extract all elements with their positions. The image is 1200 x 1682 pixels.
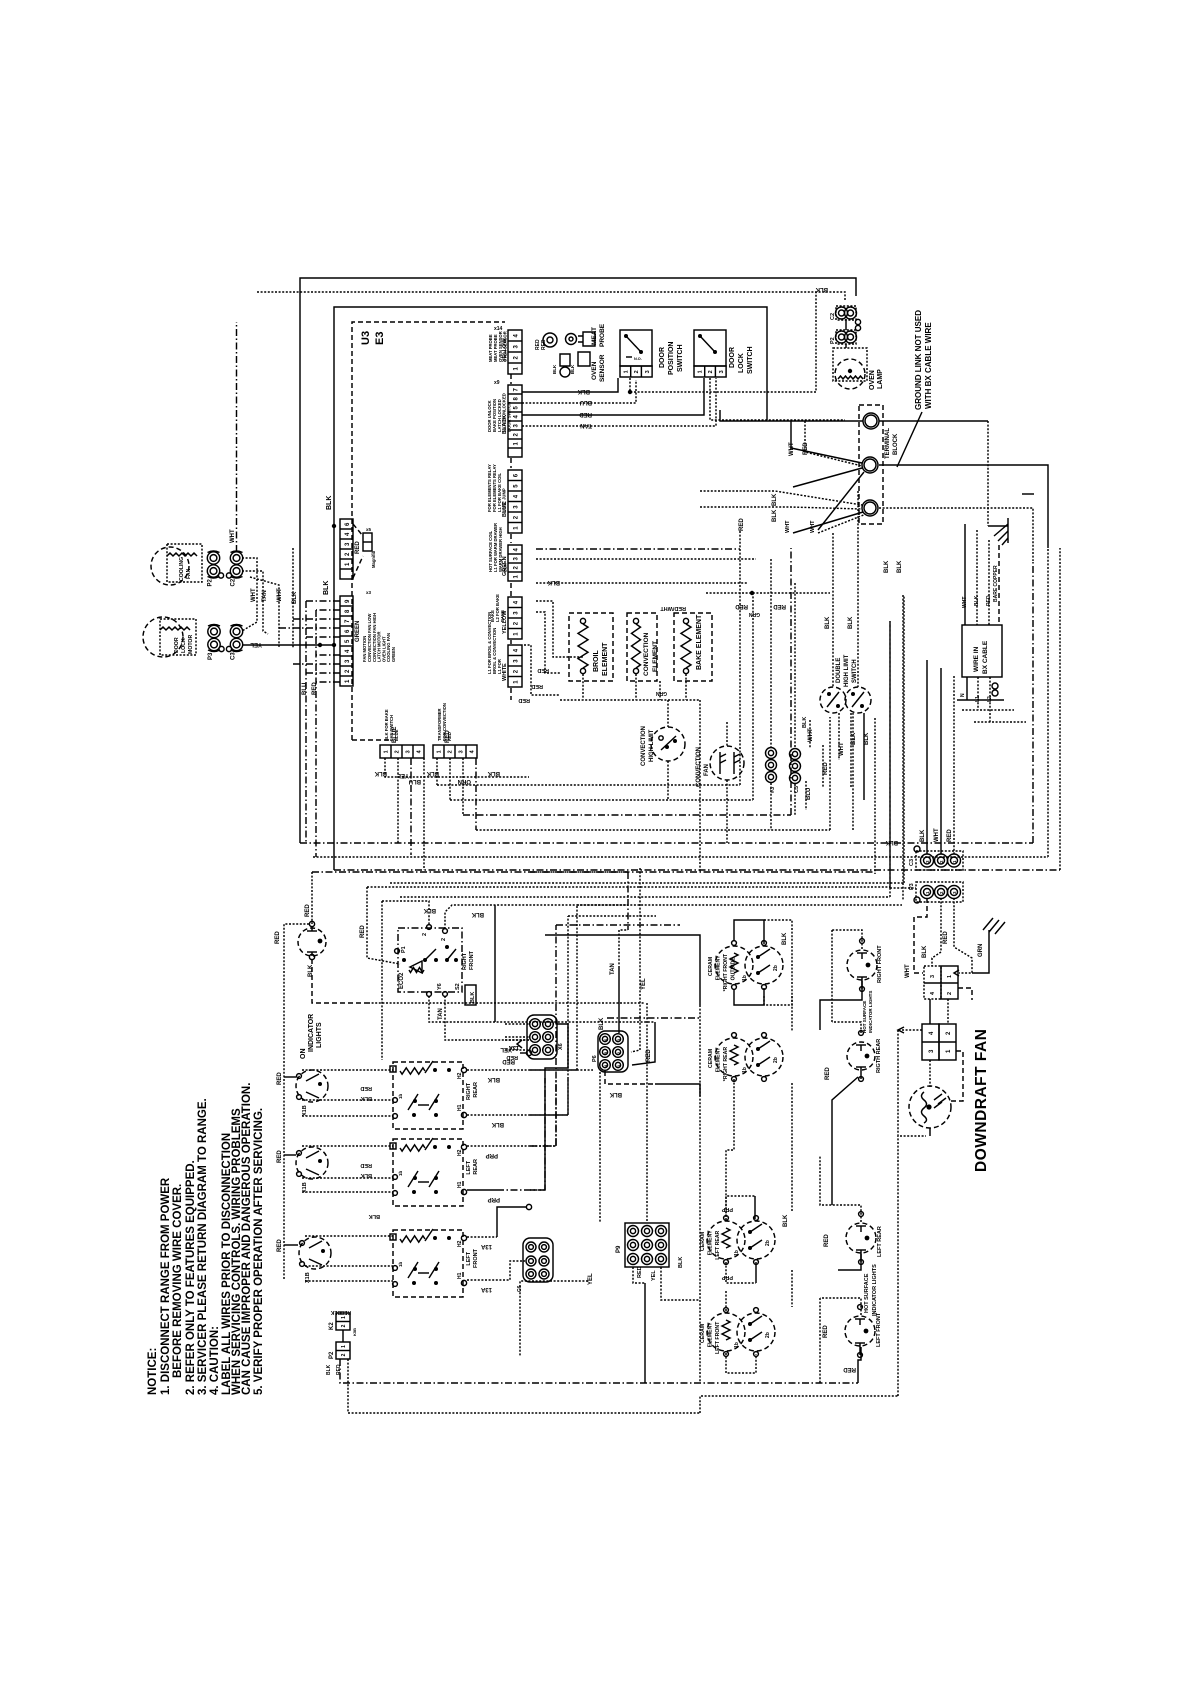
terminal block outline [859,405,883,524]
svg-text:1b: 1b [742,1067,748,1073]
svg-text:P2: P2 [830,337,836,344]
wire lower section top [312,871,875,873]
svg-text:RED: RED [360,925,366,938]
svg-text:RED: RED [943,931,949,944]
svg-text:POSITION: POSITION [668,342,675,375]
wire stub RED strip [436,758,438,785]
element bake [674,613,712,681]
wire N right loop [879,508,1033,561]
terminal block lug 2 [862,457,878,473]
wire RED downdraft [954,898,972,973]
svg-text:1: 1 [697,370,703,373]
switch ECO2 box [398,928,462,992]
svg-text:P3: P3 [909,883,915,890]
wire ORN strip stub [462,758,464,815]
wire K2 PC [342,1330,344,1342]
connector C3 downdraft [916,851,963,870]
board edge dashes [510,374,512,700]
svg-text:RED: RED [277,1072,283,1085]
lamp oven [833,348,867,381]
svg-text:TAN: TAN [262,590,268,602]
svg-text:BEFORE REMOVING WIRE COVER.: BEFORE REMOVING WIRE COVER. [172,1184,184,1378]
svg-text:TAN: TAN [580,422,592,428]
motor door lock [143,617,183,657]
svg-text:WHT: WHT [934,828,940,842]
svg-text:YEL: YEL [397,772,409,778]
svg-text:ELEMENT: ELEMENT [652,641,659,672]
connector P6 [598,1031,628,1072]
svg-text:RED: RED [735,603,748,609]
svg-text:BLK: BLK [292,591,298,604]
svg-text:CERAM: CERAM [708,1049,714,1068]
svg-text:P9: P9 [616,1245,622,1253]
connector P9 [625,1223,669,1267]
svg-text:P3: P3 [208,652,214,660]
svg-text:CAN CAUSE IMPROPER AND DANGERO: CAN CAUSE IMPROPER AND DANGEROUS OPERATI… [241,1083,253,1395]
svg-text:BLK: BLK [323,581,330,595]
connector C3 fan [790,749,801,760]
svg-text:GREEN: GREEN [355,621,361,642]
wire box to fan connector [929,999,931,1024]
element ceramic left rear [707,1221,745,1259]
svg-text:RED/WHT: RED/WHT [660,605,686,611]
svg-text:GRN: GRN [978,944,984,957]
svg-text:BLK: BLK [577,388,590,394]
svg-text:C2: C2 [231,578,237,586]
svg-text:RED: RED [275,931,281,944]
connector strip RED left [340,519,353,579]
connector P2 cooling fan [207,552,219,564]
svg-text:RED: RED [277,1239,283,1252]
svg-text:x5: x5 [366,527,372,532]
svg-text:LOCK: LOCK [181,638,187,653]
svg-text:4. CAUTION:: 4. CAUTION: [209,1326,221,1395]
wire DHL feeds [832,533,834,687]
svg-text:WHITE: WHITE [502,663,508,681]
svg-text:GROUND LINK NOT USED: GROUND LINK NOT USED [914,310,923,410]
svg-text:SWITCH: SWITCH [852,659,858,683]
wire right front element loop [530,872,628,930]
svg-text:OVEN: OVEN [869,370,876,390]
box wire in BX cable [962,625,1002,677]
svg-text:U3: U3 [360,331,372,345]
oven sensor symbol [560,354,570,366]
svg-text:L1 FOR: L1 FOR [497,659,502,674]
connector P2 lower [336,1342,350,1359]
wire dashdot right of P6 [607,1017,700,1019]
wire WHT diag to lug3 [793,512,863,533]
wires GREEN left strip web [306,600,340,602]
svg-text:INDICATOR: INDICATOR [308,1014,315,1052]
wire BLK service [976,530,978,625]
svg-text:3: 3 [406,750,412,753]
wire WHT to lug2 [791,421,862,463]
wire P9 feed [646,1003,648,1223]
svg-text:3: 3 [930,975,936,978]
svg-text:K5B: K5B [352,1328,357,1336]
svg-text:YEL: YEL [250,641,262,647]
svg-text:1b: 1b [398,1170,403,1176]
svg-text:13A: 13A [480,1243,492,1249]
svg-text:2: 2 [341,1324,347,1327]
wire BLU door position [522,380,636,403]
svg-text:2b: 2b [773,965,779,971]
connector C6 [523,1238,553,1282]
wire WHT from C2 to door lock [242,558,257,631]
wire BLK strip stub 1 [385,758,529,777]
svg-text:BLUE: BLUE [394,729,399,741]
wire band y800 [450,593,753,800]
svg-text:BLK: BLK [552,364,557,374]
connector strip GREEN mid [508,545,522,581]
switch door lock [694,330,726,366]
svg-text:1: 1 [341,1316,347,1319]
connector C3 door lock [230,625,242,637]
element broil [569,613,613,681]
svg-text:BLK: BLK [308,964,314,977]
svg-text:BROIL: BROIL [593,650,600,673]
connector strip BLUE bottom [380,745,424,758]
wire GRN ground [972,930,989,973]
svg-text:1: 1 [623,370,629,373]
svg-text:BLK: BLK [374,770,387,776]
connector X6 [527,1015,557,1059]
svg-text:E3: E3 [374,332,386,345]
wire high limit top [667,700,669,727]
svg-text:CERAM: CERAM [700,1232,706,1251]
wire L1 main top [720,410,863,421]
svg-text:RED: RED [518,697,530,703]
svg-text:GRN: GRN [656,690,668,696]
svg-text:BLK: BLK [599,1017,605,1030]
svg-text:RED: RED [986,595,992,606]
svg-text:BLK: BLK [772,493,778,506]
svg-text:LEFT: LEFT [466,1160,472,1174]
wire L2 right loop [879,465,1048,548]
svg-text:COOLING: COOLING [179,557,185,581]
wire RED door switches [522,378,704,415]
svg-text:YEL: YEL [641,978,647,990]
wire element RF top [734,920,764,944]
svg-text:H1: H1 [457,1181,463,1188]
svg-text:RED: RED [340,1309,351,1315]
svg-text:RIGHT: RIGHT [466,1082,472,1100]
svg-text:WHT: WHT [789,442,795,456]
svg-text:BLK: BLK [678,1257,684,1268]
wire RED/WHT bus top [536,548,740,550]
wire WHT downdraft [914,898,927,973]
wire Y from P9 region [530,1069,593,1071]
svg-text:FAN: FAN [186,568,192,579]
wire BLK fourth vertical [292,548,294,648]
switch box right rear [393,1062,463,1129]
svg-text:BLU: BLU [409,778,421,784]
svg-text:BLK: BLK [815,286,828,292]
connector strip YELLOW lower [508,597,522,639]
svg-text:BLK: BLK [423,907,436,913]
svg-text:H2: H2 [457,1149,463,1156]
connector strip WHITE [508,645,522,687]
junction dots left bus [332,524,336,528]
svg-text:OUTSIDE: OUTSIDE [731,957,737,981]
svg-text:BLK: BLK [547,579,560,585]
svg-text:ON: ON [300,1049,307,1060]
switch box left front [393,1230,463,1297]
svg-text:PRP: PRP [721,1206,733,1212]
wire RED element feeds [536,601,583,657]
wire left front element [725,1290,727,1311]
connector strip BLACK [508,385,522,457]
svg-text:RIGHT FRONT: RIGHT FRONT [877,945,883,983]
svg-text:LEFT FRONT: LEFT FRONT [876,1312,882,1347]
svg-text:RIGTH REAR: RIGTH REAR [876,1039,882,1073]
svg-text:BLK: BLK [848,616,854,629]
switch convection high limit [651,727,685,761]
wire BLK under P6 [605,1071,655,1084]
wire RED junction bus [706,592,830,594]
svg-text:BLK: BLK [570,364,575,374]
svg-text:ELEMENT: ELEMENT [602,642,609,676]
wire element column x700 [699,1005,701,1300]
svg-text:PROBE: PROBE [599,323,606,347]
svg-text:1b: 1b [398,1093,403,1099]
wire element right column [764,996,792,1031]
svg-text:2b: 2b [773,1057,779,1063]
svg-text:RED: RED [773,603,786,609]
svg-text:1: 1 [384,750,390,753]
svg-text:GREEN: GREEN [391,647,396,662]
motor cooling fan [151,547,189,585]
wire RED eco2 feed [367,886,890,888]
svg-text:DOOR: DOOR [659,347,666,368]
motor downdraft fan [909,1086,951,1128]
svg-text:TERMINAL: TERMINAL [885,428,891,459]
svg-text:L1: L1 [975,696,981,702]
svg-text:MOTOR: MOTOR [188,635,194,654]
svg-text:LAMP: LAMP [877,369,884,389]
svg-text:BLK: BLK [802,717,808,728]
svg-text:RED: RED [579,411,592,417]
wire band y815 [463,548,791,815]
svg-text:ECO2: ECO2 [399,972,405,989]
svg-text:1: 1 [947,975,953,978]
svg-text:BLU: BLU [580,399,592,405]
svg-text:WHT: WHT [905,964,911,978]
wire left rear element [726,1196,755,1220]
svg-text:TAN: TAN [610,963,616,975]
svg-text:CONVECTION: CONVECTION [643,632,650,676]
wire WHT cooling fan vertical [236,322,238,552]
svg-text:CONVECTION: CONVECTION [641,726,647,766]
wire RED service [988,540,990,625]
connector downdraft [922,1024,939,1060]
svg-text:RED: RED [823,1325,829,1338]
svg-text:BLK: BLK [782,932,788,945]
svg-text:x3: x3 [366,590,372,595]
svg-text:5. VERIFY PROPER OPERATION AFT: 5. VERIFY PROPER OPERATION AFTER SERVICI… [253,1108,265,1395]
svg-text:BAKE ELEMENT: BAKE ELEMENT [696,614,703,670]
wire GRN convection [659,681,661,700]
svg-text:13A: 13A [480,1286,492,1292]
wire TAN YEL element feeds [619,930,628,968]
svg-text:2: 2 [395,750,401,753]
wire #3 bottom to band [770,783,772,830]
svg-text:DOUBLE: DOUBLE [836,658,842,683]
svg-text:OVEN SENSOR: OVEN SENSOR [503,331,508,362]
wire risers switch outputs [576,905,578,1070]
svg-text:Y6: Y6 [437,983,443,990]
switch door position [620,330,652,366]
svg-text:WHT: WHT [962,597,968,608]
svg-text:BLK: BLK [772,509,778,522]
svg-text:WHT: WHT [839,742,845,756]
svg-text:ELEMENT: ELEMENT [708,1230,714,1256]
motor convection fan [710,746,744,780]
service leads N L1 L2 [957,677,1004,700]
svg-text:PRP: PRP [721,1274,733,1280]
svg-text:FRONT: FRONT [473,1248,479,1268]
svg-text:ELEMENT: ELEMENT [716,955,722,981]
svg-text:1b: 1b [734,1250,740,1256]
element ceramic right rear [715,1038,753,1076]
relay module small [363,533,372,551]
svg-text:RED: RED [823,762,829,775]
svg-text:P2: P2 [329,1351,335,1359]
wire BLK pair to lug3 [700,491,862,505]
svg-text:MEAT: MEAT [591,327,598,345]
ground symbol [988,518,1008,543]
connector P3 downdraft [916,882,963,902]
svg-text:H2: H2 [457,1072,463,1079]
svg-text:H2: H2 [457,1240,463,1247]
svg-text:RED: RED [843,1366,856,1372]
svg-text:RED: RED [305,904,311,917]
svg-text:SWITCH: SWITCH [747,346,754,374]
wire WHT service [964,524,966,625]
svg-text:RED: RED [277,1150,283,1163]
connector strip GREEN left [340,596,353,686]
svg-text:PRP: PRP [488,1196,500,1202]
svg-text:BLK: BLK [974,595,980,606]
svg-text:BLK: BLK [470,992,476,1003]
wire band ends right [1059,548,1061,870]
wire WHT third vertical [250,577,279,648]
svg-text:WHT: WHT [808,728,814,742]
svg-text:S2: S2 [455,983,461,990]
wire C3 downdraft feeds [926,660,928,854]
svg-text:LEFT REAR: LEFT REAR [715,1230,721,1259]
connector P2 oven lamp [836,331,848,343]
svg-text:CERAM: CERAM [700,1324,706,1343]
svg-text:WITH BX CABLE WIRE: WITH BX CABLE WIRE [924,322,933,409]
svg-text:WIRE IN: WIRE IN [973,646,980,672]
svg-text:REAR: REAR [473,1159,479,1175]
svg-text:RED: RED [355,541,361,554]
svg-text:*RIGHT REAR: *RIGHT REAR [723,1047,729,1082]
svg-text:2: 2 [448,750,454,753]
wire RED left vertical [315,610,317,857]
svg-text:BLK: BLK [920,829,926,842]
connector #3 [766,748,777,759]
control board U3 outline [352,322,505,740]
connector strip YELLOW top [508,330,522,374]
svg-text:BLU: BLU [806,788,812,800]
svg-text:BLK: BLK [326,496,333,510]
wire band y785 [437,531,740,785]
svg-text:BLK: BLK [885,839,898,845]
wire BLK bus 2 [536,582,748,584]
svg-text:2: 2 [341,1353,347,1356]
svg-text:2b: 2b [765,1332,771,1338]
svg-text:BLK: BLK [609,1091,622,1097]
element ceramic right front [715,946,753,984]
wire BLK eco2 top [382,901,429,925]
wire right verticals to lower half [874,718,876,874]
wire convection fan bottom [726,780,728,843]
svg-text:3. SERVICER PLEASE RETURN DIAG: 3. SERVICER PLEASE RETURN DIAGRAM TO RAN… [197,1098,209,1395]
svg-text:RED: RED [803,442,809,455]
svg-text:PRP: PRP [486,1152,498,1158]
svg-text:2: 2 [708,370,714,373]
svg-text:3: 3 [645,370,651,373]
svg-text:BLK: BLK [884,560,890,573]
wire element left column [726,1079,734,1218]
svg-text:BARE COPPER: BARE COPPER [993,565,999,602]
svg-text:K2: K2 [329,1322,335,1330]
svg-text:HIGH LIMIT: HIGH LIMIT [649,729,655,762]
wire TAN door lock [522,378,716,426]
svg-text:1b: 1b [734,1342,740,1348]
svg-text:2: 2 [634,370,640,373]
svg-text:LEFT: LEFT [466,1251,472,1265]
wire TAN vertical [242,571,268,634]
svg-text:LEFT FRONT: LEFT FRONT [715,1321,721,1354]
connector strip BLUE [508,470,522,533]
svg-text:RED: RED [447,732,452,741]
svg-text:H1: H1 [457,1104,463,1111]
svg-text:INDICATOR LIGHTS: INDICATOR LIGHTS [868,991,873,1033]
svg-text:LOCK: LOCK [738,353,745,373]
svg-text:REAR: REAR [473,1082,479,1098]
svg-text:RED: RED [739,518,745,531]
svg-text:3: 3 [719,370,725,373]
svg-text:INDICATOR LIGHTS: INDICATOR LIGHTS [872,1264,878,1316]
svg-text:RED: RED [824,1234,830,1247]
svg-text:C3: C3 [231,652,237,660]
svg-text:RED: RED [947,829,953,842]
svg-text:TAN: TAN [438,1008,444,1020]
svg-text:ELEMENT: ELEMENT [716,1047,722,1073]
wire downdraft fan loop [898,1029,922,1031]
svg-text:RED: RED [360,1085,372,1091]
svg-text:BLK: BLK [330,1309,341,1315]
svg-text:N: N [960,693,966,697]
wire RED to lug2 [805,421,862,466]
svg-text:WHT: WHT [230,529,236,543]
svg-text:RED: RED [312,682,318,695]
light right front [847,950,877,980]
svg-text:WHT: WHT [277,588,283,602]
wire P6 pin2 [631,868,640,1052]
svg-text:BAKE: BAKE [500,610,505,622]
svg-text:L2: L2 [987,696,993,702]
svg-text:BLK: BLK [864,732,870,745]
wire YEL door lock to board [242,644,334,646]
wire TAN eco2 [429,996,655,1022]
svg-text:1. DISCONNECT RANGE FROM POWER: 1. DISCONNECT RANGE FROM POWER [160,1177,172,1395]
svg-text:BLOCK: BLOCK [893,433,899,455]
svg-text:LEFT REAR: LEFT REAR [877,1226,883,1257]
